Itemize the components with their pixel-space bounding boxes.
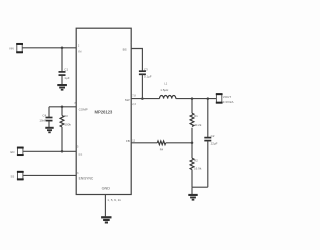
node FB/divider junction	[191, 142, 194, 145]
terminal VOUT	[216, 94, 234, 105]
svg-text:COMP: COMP	[79, 107, 88, 111]
capacitor C2	[204, 134, 217, 145]
wire R3 to EN net	[61, 127, 63, 151]
wire R2 to bottom rail	[191, 170, 193, 188]
wire SS to pin	[23, 174, 76, 176]
svg-text:1, 5, 9, 11: 1, 5, 9, 11	[107, 198, 121, 202]
svg-text:1.5µH: 1.5µH	[160, 88, 168, 92]
svg-text:R1: R1	[194, 114, 198, 118]
node R3/EN junction	[61, 150, 64, 153]
wire L1 to VOUT	[176, 98, 217, 100]
svg-text:MP26123: MP26123	[95, 110, 113, 115]
svg-text:R2: R2	[194, 159, 198, 163]
svg-text:SS: SS	[78, 152, 82, 156]
svg-text:R3: R3	[64, 114, 68, 118]
node output/R1 junction	[191, 97, 194, 100]
wire C2 lower leg	[207, 141, 209, 187]
svg-text:22µF: 22µF	[211, 141, 218, 145]
wire VIN to IN pin	[22, 47, 76, 49]
svg-text:GND: GND	[102, 187, 111, 191]
terminal SS	[11, 171, 24, 180]
wire COMP pin	[49, 106, 76, 108]
ground G4	[188, 194, 197, 201]
terminal VIN	[9, 43, 23, 52]
svg-text:R4: R4	[160, 148, 164, 152]
wire SW pin	[131, 98, 159, 100]
svg-text:C4: C4	[42, 113, 46, 117]
svg-text:SW: SW	[125, 98, 130, 102]
resistor R4	[157, 141, 165, 152]
svg-text:C1: C1	[64, 68, 68, 72]
wire R1 to FB node	[191, 128, 193, 143]
wire C4 upper leg	[48, 107, 50, 117]
svg-text:EN/SYNC: EN/SYNC	[79, 177, 94, 181]
wire FB pin	[131, 142, 157, 144]
inductor L1	[160, 82, 176, 99]
wire C1 upper leg	[61, 48, 63, 72]
terminal EN	[11, 147, 24, 156]
ground G1	[57, 84, 67, 91]
wire C2 upper leg	[207, 99, 209, 138]
wire rail to ground	[191, 187, 193, 194]
svg-text:VIN: VIN	[9, 47, 14, 51]
svg-text:2,3: 2,3	[132, 103, 136, 106]
svg-text:100k: 100k	[64, 122, 71, 126]
svg-text:FB: FB	[126, 139, 130, 143]
svg-text:EN: EN	[11, 150, 15, 154]
svg-text:SS: SS	[11, 174, 15, 178]
svg-text:40.2k: 40.2k	[194, 123, 202, 127]
capacitor C1	[59, 68, 70, 81]
svg-text:7,8: 7,8	[132, 94, 136, 97]
capacitor C3	[139, 68, 152, 79]
svg-text:0.1µF: 0.1µF	[144, 75, 152, 79]
node COMP/R3 junction	[61, 106, 64, 109]
capacitor C4	[39, 113, 52, 122]
svg-text:3.3V/2A: 3.3V/2A	[223, 100, 234, 104]
svg-text:12: 12	[132, 140, 135, 143]
wire BS pin to C3	[131, 49, 142, 72]
svg-text:C3: C3	[144, 68, 148, 72]
svg-text:4: 4	[130, 42, 132, 45]
IC U1 MP26123	[76, 28, 131, 194]
node input/C1 junction	[61, 47, 64, 50]
wire C4 lower leg	[48, 121, 50, 127]
resistor R3	[60, 107, 71, 127]
svg-text:10nF: 10nF	[39, 118, 46, 122]
wire bottom rail	[192, 186, 208, 188]
node output/C2 junction	[207, 97, 210, 100]
svg-text:1µF: 1µF	[64, 76, 69, 80]
svg-text:16.9k: 16.9k	[194, 166, 202, 170]
wire R4 to divider	[166, 142, 192, 144]
wire C1 lower leg	[61, 75, 63, 84]
node C3/SW junction	[141, 97, 144, 100]
resistor R1	[190, 99, 202, 127]
wire IC GND stem	[104, 195, 106, 217]
svg-text:C2: C2	[211, 134, 215, 138]
svg-text:IN: IN	[78, 50, 81, 54]
svg-text:VOUT: VOUT	[223, 95, 232, 99]
wire EN to pin	[23, 150, 76, 152]
svg-text:L1: L1	[164, 82, 167, 86]
ground G2	[45, 127, 53, 133]
wire C3 to SW	[141, 75, 143, 99]
svg-text:BS: BS	[123, 48, 127, 52]
resistor R2	[190, 143, 202, 171]
ground G3	[101, 216, 111, 223]
